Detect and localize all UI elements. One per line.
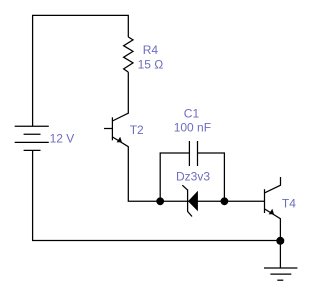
transistor T4 collector stub [265, 177, 281, 193]
transistor T4 emitter and wire to bottom node [265, 209, 281, 241]
wire battery bottom to bottom-right node [33, 150, 281, 240]
transistor T2 bar [111, 117, 113, 140]
capacitor C1 right plate [197, 141, 199, 166]
diode Dz3v3 zener triangle [188, 191, 198, 212]
wire T2 collector lead [112, 72, 128, 121]
transistor T2 base stub [104, 128, 112, 130]
svg-text:100 nF: 100 nF [174, 121, 211, 135]
svg-text:C1: C1 [184, 106, 200, 120]
wire ground stem [279, 241, 281, 269]
transistor T2 emitter and wire to node row [112, 137, 264, 201]
ground line 3 [277, 279, 283, 281]
svg-text:15 Ω: 15 Ω [138, 57, 164, 71]
wire C1 branch left [160, 153, 189, 201]
battery 12V plate long lower [15, 141, 49, 143]
diode Dz3v3 zener cathode bar with hooks [182, 185, 192, 216]
node junction dot T4 emitter [276, 237, 284, 245]
svg-text:12 V: 12 V [50, 131, 75, 145]
node junction dot left [156, 197, 164, 205]
battery 12V plate short upper [24, 133, 41, 135]
transistor T2 emitter arrow [117, 137, 122, 143]
transistor T4 bar [264, 189, 266, 213]
svg-text:T2: T2 [130, 123, 144, 137]
battery 12V plate long top [15, 125, 49, 127]
node junction dot right [221, 197, 229, 205]
wire battery top to top-left corner to resistor top [33, 15, 129, 126]
svg-text:R4: R4 [143, 43, 159, 57]
svg-text:Dz3v3: Dz3v3 [176, 169, 210, 183]
battery 12V plate short bottom [24, 149, 41, 151]
ground line 2 [270, 273, 291, 275]
svg-text:T4: T4 [282, 197, 296, 211]
capacitor C1 left plate [188, 141, 190, 166]
resistor R4 [124, 37, 133, 72]
ground line 1 [264, 267, 297, 269]
transistor T4 emitter arrow [269, 209, 274, 215]
wire C1 branch right [198, 153, 225, 201]
